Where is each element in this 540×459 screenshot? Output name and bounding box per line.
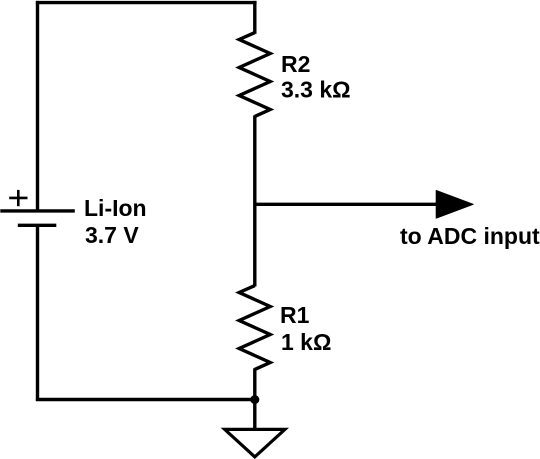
wire: top horizontal rail from battery + to R2 top [36, 1, 257, 4]
svg-text:to ADC input: to ADC input [400, 223, 540, 249]
junction node: ground node dot [250, 395, 259, 404]
resistor R1 (zigzag) [239, 286, 270, 370]
svg-text:Li-Ion: Li-Ion [84, 195, 147, 221]
arrowhead: to ADC input [436, 191, 473, 219]
battery polarity + sign [9, 190, 27, 206]
battery Li-Ion (two plates) [0, 211, 75, 225]
svg-text:3.3 kΩ: 3.3 kΩ [281, 77, 351, 103]
resistor R2 (zigzag) [239, 33, 270, 117]
svg-text:3.7 V: 3.7 V [85, 222, 139, 248]
svg-text:1 kΩ: 1 kΩ [281, 329, 331, 355]
svg-text:R1: R1 [280, 302, 310, 328]
wire: middle vertical between R2 bottom and R1 top (divider tap node) [253, 115, 256, 286]
wire: left vertical lower (battery - plate down to bottom rail) [36, 225, 39, 401]
wire: bottom horizontal rail from battery - to ground node [36, 398, 255, 401]
wire: ground node down to ground symbol [253, 399, 256, 430]
wire: ADC output horizontal line from divider tap [254, 203, 442, 206]
wire: middle vertical stub from top rail to R2 [253, 1, 256, 34]
svg-text:R2: R2 [281, 51, 310, 77]
wire: R1 bottom to ground node [253, 368, 256, 400]
ground symbol (open triangle) [225, 429, 285, 457]
wire: left vertical upper (top rail down to battery + plate) [36, 1, 39, 211]
